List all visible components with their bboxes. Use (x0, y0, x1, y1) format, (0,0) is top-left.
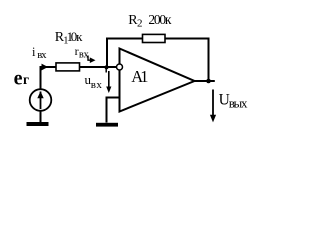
svg-text:вх: вх (37, 50, 47, 61)
svg-text:200к: 200к (148, 12, 171, 27)
svg-text:e: e (14, 67, 23, 89)
svg-text:А1: А1 (131, 67, 148, 86)
svg-text:вх: вх (79, 50, 90, 61)
svg-text:i: i (32, 45, 36, 59)
svg-text:2: 2 (137, 18, 143, 30)
svg-text:вых: вых (229, 96, 248, 111)
svg-text:0к: 0к (71, 29, 83, 44)
svg-text:вх: вх (91, 79, 103, 91)
svg-text:г: г (23, 72, 29, 87)
